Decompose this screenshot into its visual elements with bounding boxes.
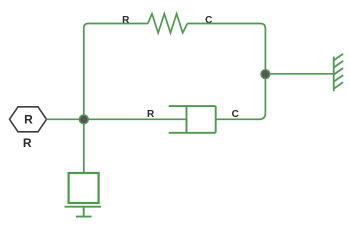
support ground under mass bbox=[65, 207, 102, 217]
mass element (box) bbox=[69, 173, 99, 203]
port R (hexagon connector) bbox=[10, 107, 47, 132]
fixed wall (support) bbox=[334, 54, 343, 91]
node J1 (junction dot) bbox=[79, 115, 88, 124]
spring (top branch) bbox=[148, 14, 188, 33]
svg-text:R: R bbox=[147, 109, 155, 120]
wire spring right, corner down to node J2 and damper bbox=[187, 24, 265, 120]
wire port to node J1 bbox=[47, 118, 84, 120]
wire node J1 to damper rod bbox=[84, 118, 187, 120]
svg-text:R: R bbox=[24, 113, 33, 127]
wire node J1 down to mass bbox=[83, 119, 85, 173]
svg-text:R: R bbox=[122, 15, 130, 26]
svg-text:R: R bbox=[23, 136, 32, 150]
wire node J2 to fixed wall bbox=[265, 73, 333, 75]
svg-text:C: C bbox=[232, 109, 239, 120]
wire node J1 up and right to spring bbox=[84, 24, 148, 120]
damper (middle branch) bbox=[169, 106, 216, 133]
node J2 (junction dot) bbox=[261, 70, 270, 79]
